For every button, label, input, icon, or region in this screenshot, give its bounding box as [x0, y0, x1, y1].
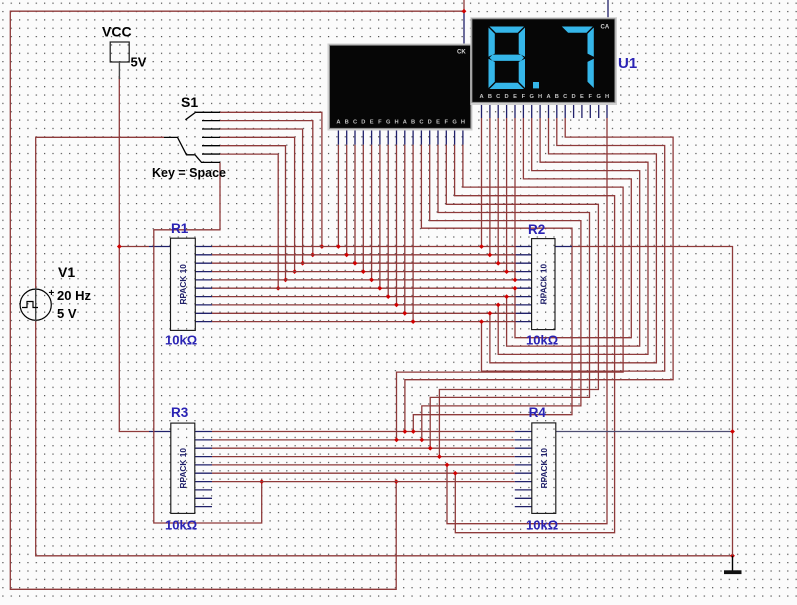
svg-text:B: B [411, 120, 415, 126]
wire R2 left pin stub 3 [515, 262, 532, 264]
svg-text:C: C [353, 120, 357, 126]
svg-text:E: E [370, 120, 374, 126]
wire R1 right pin stub 5 [195, 279, 212, 281]
svg-text:A: A [546, 94, 550, 100]
wire R4 left pin stub 2 [515, 439, 532, 441]
svg-text:D: D [361, 120, 365, 126]
label VCC value 5V [131, 55, 147, 70]
svg-text:H: H [538, 94, 542, 100]
svg-text:A: A [403, 120, 407, 126]
svg-text:G: G [386, 120, 391, 126]
wire R4 unconnected pin stub 10 [515, 506, 532, 508]
wire display1 pin 11 loop right-down-left to R3 row1 [413, 145, 572, 432]
svg-text:D: D [428, 120, 432, 126]
wire bus row 10 R1 pin10 to R2 pin10 [212, 321, 515, 323]
wire R4 unconnected pin stub 8 [515, 489, 532, 491]
wire U2 display1 pin 6 stub [379, 128, 381, 145]
wire R2 common pin stub [555, 246, 572, 248]
label R1 value 10k [165, 333, 197, 348]
wire R2 left pin stub 2 [515, 254, 532, 256]
wire S1 throw 6 to R1 pin 6 [220, 154, 278, 288]
svg-text:RPACK 10: RPACK 10 [178, 448, 188, 489]
junction display2 pin9 loop on R2 row9 [487, 311, 492, 316]
wire bus row 6 R3 pin6 to R4 pin6 [212, 472, 515, 474]
svg-text:VCC: VCC [102, 24, 132, 40]
svg-text:D: D [572, 94, 576, 100]
switch S1 contact 3 [202, 128, 220, 130]
wire U1 display2 pin 6 stub [522, 102, 524, 118]
label V1 [58, 264, 75, 280]
wire U1 display2 pin 1 stub [481, 102, 483, 118]
svg-text:D: D [505, 94, 509, 100]
svg-text:F: F [522, 94, 526, 100]
junction VCC rail / R1 pin1 [117, 244, 122, 249]
wire R4 left pin stub 7 [515, 481, 532, 483]
wire R2 left pin stub 7 [515, 296, 532, 298]
junction display1 seg5 on R1 row 5 [369, 277, 374, 282]
svg-text:5V: 5V [131, 55, 147, 70]
wire display1 segment 1 down to R1 row 1 [337, 145, 339, 247]
wire U2 display1 pin 3 stub [354, 128, 356, 145]
label R3 value 10k [165, 518, 197, 533]
wire R4 left pin stub 5 [515, 464, 532, 466]
wire R3 right pin stub 1 [195, 431, 212, 433]
wire display2 segment 3 down to R2 row 3 [497, 118, 499, 263]
svg-text:E: E [580, 94, 584, 100]
wire U1 display2 pin 4 stub [506, 102, 508, 118]
junction S1 wire on R1 row 3 [300, 261, 305, 266]
wire U2 display1 pin 14 stub [445, 128, 447, 145]
wire R3 unconnected pin stub 9 [195, 497, 212, 499]
wire display2 CA pin from top edge [607, 0, 609, 19]
svg-text:R3: R3 [171, 405, 189, 420]
svg-text:CA: CA [601, 25, 610, 31]
svg-text:G: G [596, 94, 601, 100]
svg-text:H: H [461, 120, 465, 126]
label S1 [181, 94, 198, 110]
svg-text:10kΩ: 10kΩ [526, 333, 558, 348]
wire display1 segment 5 down to R1 row 5 [371, 145, 373, 280]
wire R1 right pin stub 4 [195, 271, 212, 273]
junction display2 pin11 loop on R3 row1 [402, 429, 407, 434]
svg-text:+: + [49, 288, 55, 299]
wire U1 display2 pin 10 stub [556, 102, 558, 118]
wire R1 right pin stub 6 [195, 287, 212, 289]
svg-text:CK: CK [457, 50, 466, 56]
wire R2 left pin stub 6 [515, 287, 532, 289]
wire display2 segment 2 down to R2 row 2 [489, 118, 491, 255]
wire bus row 5 R3 pin5 to R4 pin5 [212, 464, 515, 466]
label R4 [529, 405, 547, 420]
wire U2 display1 pin 15 stub [454, 128, 456, 145]
wire U1 display2 pin 11 stub [564, 102, 566, 118]
svg-text:C: C [419, 120, 423, 126]
wire display1 segment 2 down to R1 row 2 [346, 145, 348, 255]
wire U2 display1 pin 2 stub [346, 128, 348, 145]
wire display1 segment 9 down to R1 row 9 [404, 145, 406, 313]
label R2 [528, 222, 545, 237]
wire net0 outer border (ground-side loop) left/top/bottom [10, 11, 464, 589]
wire U2 display1 pin 16 stub [462, 128, 464, 145]
junction display2 seg3 on R2 row 3 [496, 261, 501, 266]
wire R1 right pin stub 1 [195, 246, 212, 248]
display U1 seven-seg display2 outer frame [470, 17, 617, 105]
svg-text:F: F [589, 94, 593, 100]
wire R1 right pin stub 8 [195, 304, 212, 306]
wire U1 display2 pin 15 stub [598, 102, 600, 118]
display U2 pin letters A-H A-H [336, 120, 465, 126]
wire R4 left pin stub 6 [515, 472, 532, 474]
wire R2 left pin stub 10 [515, 321, 532, 323]
switch S1 contact 1 [195, 111, 220, 113]
wire bus row 2 R1 pin2 to R2 pin2 [212, 254, 515, 256]
wire bus row 5 R1 pin5 to R2 pin5 [212, 279, 515, 281]
junction display1 seg1 on R1 row 1 [336, 244, 341, 249]
junction S1 wire on R1 row 5 [283, 277, 288, 282]
svg-text:5 V: 5 V [57, 306, 77, 321]
junction display1 pin15 loop on R3 row6 [453, 471, 458, 476]
junction display1 pin16 loop on R3 row2 [394, 437, 399, 442]
svg-text:B: B [555, 94, 559, 100]
svg-text:B: B [488, 94, 492, 100]
junction display2 pin16 path on R3 row5 [445, 462, 450, 467]
svg-text:A: A [336, 120, 340, 126]
resistor pack R2 body [532, 239, 555, 330]
junction display2 seg5 on R2 row 5 [513, 277, 518, 282]
wire U1 display2 pin 8 stub [539, 102, 541, 118]
display U1 decimal point [533, 82, 539, 88]
svg-text:Key = Space: Key = Space [152, 166, 226, 180]
switch S1 contact 4 [202, 136, 220, 138]
wire U2 display1 pin 13 stub [437, 128, 439, 145]
wire U2 display1 pin 5 stub [371, 128, 373, 145]
wire R3 right pin stub 6 [195, 472, 212, 474]
junction S1 wire on R1 row 4 [292, 269, 297, 274]
wire U1 display2 pin 5 stub [514, 102, 516, 118]
switch S1 contact 2 [202, 120, 220, 122]
display U2 seven-seg display1 outer frame [328, 44, 473, 131]
wire VCC rail from VCC symbol down to R3 pin1 [119, 76, 149, 432]
wire U1 display2 pin 13 stub [581, 102, 583, 118]
wire display1 pin 14 loop right-down-left to R3 row4 [439, 145, 598, 457]
wire net0 stub to top edge at x=464 [463, 0, 465, 11]
resistor pack R3 body [171, 423, 195, 513]
svg-text:10kΩ: 10kΩ [165, 518, 197, 533]
wire R2 left pin stub 4 [515, 271, 532, 273]
junction S1 pole on R3 row7 [259, 479, 264, 484]
wire R4 left pin stub 4 [515, 456, 532, 458]
resistor pack R1 body [171, 238, 196, 330]
power VCC symbol [110, 42, 129, 79]
label R4 value 10k [526, 518, 558, 533]
junction display1 seg9 on R1 row 9 [402, 311, 407, 316]
wire R3 unconnected pin stub 8 [195, 489, 212, 491]
label R2 value 10k [526, 333, 558, 348]
wire R3 right pin stub 3 [195, 447, 212, 449]
label V1 frequency 20 Hz [57, 288, 91, 303]
wire bus row 7 R3 pin7 to R4 pin7 [212, 481, 515, 483]
label VCC [102, 24, 132, 40]
svg-text:RPACK 10: RPACK 10 [178, 264, 188, 305]
junction display2 pin10 loop on R2 row10 [479, 319, 484, 324]
display U1 digit 8 segments [489, 27, 526, 90]
svg-text:G: G [452, 120, 457, 126]
wire R1 right pin stub 10 [195, 321, 212, 323]
junction display1 pin14 loop on R3 row4 [437, 454, 442, 459]
switch S1 pole lead [164, 137, 220, 162]
wire display1 segment 6 down to R1 row 6 [379, 145, 381, 288]
wire U2 display1 pin 8 stub [396, 128, 398, 145]
wire display2 pin 7 elbow loop to R2 row7 [507, 118, 640, 346]
svg-text:20 Hz: 20 Hz [57, 288, 91, 303]
display U1 pin letters A-H A-H [479, 94, 609, 100]
svg-text:RPACK 10: RPACK 10 [538, 264, 548, 305]
wire bus row 7 R1 pin7 to R2 pin7 [212, 296, 515, 298]
wire U1 display2 pin 12 stub [573, 102, 575, 118]
wire bus row 1 R3 pin1 to R4 pin1 [212, 431, 515, 433]
wire S1 pole down-left-down to R3 row7 [154, 162, 262, 523]
ground symbol bar [724, 570, 742, 574]
junction display1 seg2 on R1 row 2 [344, 252, 349, 257]
svg-text:G: G [529, 94, 534, 100]
wire R4 left pin stub 3 [515, 447, 532, 449]
wire R3 right pin stub 2 [195, 439, 212, 441]
wire display1 segment 10 down to R1 row 10 [412, 145, 414, 322]
wire display2 segment 1 down to R2 row 1 [481, 118, 483, 247]
wire display2 pin 6 elbow loop to R2 row6 [515, 118, 631, 338]
switch S1 actuator arm [185, 112, 195, 119]
wire R3 right pin stub 5 [195, 464, 212, 466]
junction display2 seg4 on R2 row 4 [504, 269, 509, 274]
svg-text:E: E [513, 94, 517, 100]
junction border riser on R3 row7 [394, 479, 399, 484]
wire R2 left pin stub 9 [515, 312, 532, 314]
junction display1 seg8 on R1 row 8 [394, 302, 399, 307]
junction display1 seg7 on R1 row 7 [386, 294, 391, 299]
ground symbol stub [732, 556, 734, 571]
svg-text:H: H [605, 94, 609, 100]
wire bus row 9 R1 pin9 to R2 pin9 [212, 312, 515, 314]
wire S1 throw 5 to R1 pin 5 [220, 146, 286, 280]
svg-text:B: B [345, 120, 349, 126]
wire display2 pin 10 elbow loop to R2 row10 [482, 118, 665, 371]
svg-text:A: A [479, 94, 483, 100]
wire R2 common to right rail down to ground node [572, 247, 733, 556]
wire display1 pin 12 loop right-down-left to R3 row2 [422, 145, 581, 440]
wire V1 minus terminal to ground rail [36, 320, 733, 555]
wire display1 CK pin stub [463, 11, 465, 45]
svg-text:F: F [445, 120, 449, 126]
wire U1 display2 pin 9 stub [548, 102, 550, 118]
display U2 seven-seg display1 body [330, 45, 471, 128]
junction S1 wire on R1 row 6 [276, 286, 281, 291]
display U1 seven-seg display2 body [472, 19, 615, 103]
svg-text:V1: V1 [58, 264, 75, 280]
wire U1 display2 pin 2 stub [489, 102, 491, 118]
junction S1 wire on R1 row 2 [310, 252, 315, 257]
wire display1 segment 7 down to R1 row 7 [387, 145, 389, 297]
label V1 amplitude 5 V [57, 306, 77, 321]
wire display2 pin 16 long drop under R4 up to R3 row5 [447, 118, 607, 524]
wire display2 segment 5 down to R2 row 5 [514, 118, 516, 280]
wire display2 pin 9 elbow loop to R2 row9 [490, 118, 657, 363]
svg-text:C: C [563, 94, 567, 100]
svg-text:C: C [496, 94, 500, 100]
wire S1 throw 2 to R1 pin 2 [220, 121, 313, 255]
svg-text:R4: R4 [529, 405, 547, 420]
wire bus row 1 R1 pin1 to R2 pin1 [212, 246, 515, 248]
wire R4 common pin to right rail [556, 431, 733, 433]
junction display1 pin12 loop on R3 row2 [419, 437, 424, 442]
svg-text:R2: R2 [528, 222, 545, 237]
wire R2 left pin stub 8 [515, 304, 532, 306]
wire S1 throw 4 to R1 pin 4 [220, 137, 295, 271]
wire display2 segment 4 down to R2 row 4 [506, 118, 508, 272]
display U1 digit 7 segments [562, 27, 594, 89]
junction display2 pin8 loop on R2 row8 [496, 302, 501, 307]
junction border/CK at (464,11) [462, 9, 467, 14]
wire R4 left pin stub 1 [515, 431, 532, 433]
wire R1 right pin stub 7 [195, 296, 212, 298]
wire R3 right pin stub 4 [195, 456, 212, 458]
wire display1 segment 3 down to R1 row 3 [354, 145, 356, 263]
switch S1 contact 5 [202, 145, 220, 147]
wire display1 segment 4 down to R1 row 4 [362, 145, 364, 272]
wire R3 right pin stub 7 [195, 481, 212, 483]
wire U2 display1 pin 4 stub [362, 128, 364, 145]
wire S1 throw 3 to R1 pin 3 [220, 129, 303, 263]
source V1 square-wave glyph [22, 302, 38, 308]
wire R1 right pin stub 3 [195, 262, 212, 264]
junction display2 pin6 loop on R2 row6 [513, 286, 518, 291]
wire U2 display1 pin 7 stub [387, 128, 389, 145]
label U1 [618, 55, 637, 72]
junction ground node [730, 553, 735, 558]
wire R3 left pin stub (pin1) [149, 431, 171, 433]
junction display2 seg2 on R2 row 2 [487, 252, 492, 257]
wire R2 left pin stub 5 [515, 279, 532, 281]
junction display1 seg4 on R1 row 4 [361, 269, 366, 274]
wire R3 unconnected pin stub 10 [195, 506, 212, 508]
wire U2 display1 pin 9 stub [404, 128, 406, 145]
label R1 [171, 221, 189, 236]
svg-text:RPACK 10: RPACK 10 [539, 448, 549, 489]
junction display1 pin13 loop on R3 row3 [428, 446, 433, 451]
junction display2 seg1 on R2 row 1 [479, 244, 484, 249]
label R3 [171, 405, 189, 420]
wire display1 segment 8 down to R1 row 8 [396, 145, 398, 305]
wire U2 display1 pin 1 stub [337, 128, 339, 145]
wire U1 display2 pin 16 stub [606, 102, 608, 118]
wire U2 display1 pin 11 stub [420, 128, 422, 145]
label S1 key [152, 166, 226, 180]
resistor pack R4 body [532, 423, 556, 514]
wire U2 display1 pin 12 stub [429, 128, 431, 145]
wire display2 pin 11 elbow loop to R3 row1 [405, 118, 673, 432]
junction display2 pin7 loop on R2 row7 [504, 294, 509, 299]
wire R1 left pin stub (pin1) [149, 246, 171, 248]
wire bus row 2 R3 pin2 to R4 pin2 [212, 439, 515, 441]
wire bus row 8 R1 pin8 to R2 pin8 [212, 304, 515, 306]
junction display1 seg10 on R1 row 10 [411, 319, 416, 324]
wire S1 throw 1 to R1 pin 1 [220, 112, 322, 246]
wire bus row 4 R1 pin4 to R2 pin4 [212, 271, 515, 273]
wire U1 display2 pin 14 stub [589, 102, 591, 118]
wire U2 display1 pin 10 stub [412, 128, 414, 145]
junction display1 seg6 on R1 row 6 [377, 286, 382, 291]
svg-text:S1: S1 [181, 94, 198, 110]
wire R1 right pin stub 9 [195, 312, 212, 314]
wire bus row 6 R1 pin6 to R2 pin6 [212, 287, 515, 289]
svg-text:10kΩ: 10kΩ [526, 518, 558, 533]
svg-text:10kΩ: 10kΩ [165, 333, 197, 348]
svg-text:E: E [436, 120, 440, 126]
source V1 circle [20, 289, 51, 320]
wire U1 display2 pin 3 stub [497, 102, 499, 118]
wire bus row 3 R1 pin3 to R2 pin3 [212, 262, 515, 264]
junction S1 wire on R1 row 1 [319, 244, 324, 249]
wire VCC branch to R1 left pin [119, 246, 149, 248]
wire display1 pin 16 loop right-down-left to R3 row2 [397, 145, 624, 440]
wire display2 pin 8 elbow loop to R2 row8 [498, 118, 648, 354]
wire V1 plus terminal up to switch pole [36, 137, 164, 289]
junction R4 common on right rail [730, 429, 735, 434]
junction display1 pin11 loop on R3 row1 [411, 429, 416, 434]
svg-text:F: F [378, 120, 382, 126]
wire display1 pin 15 loop right-down-left to R3 row6 [455, 145, 615, 533]
wire bus row 3 R3 pin3 to R4 pin3 [212, 447, 515, 449]
source V1 pin line through body [35, 288, 37, 322]
svg-text:H: H [394, 120, 398, 126]
wire bus row 4 R3 pin4 to R4 pin4 [212, 456, 515, 458]
svg-text:U1: U1 [618, 55, 637, 72]
wire display1 pin 13 loop right-down-left to R3 row3 [430, 145, 589, 448]
wire R1 right pin stub 2 [195, 254, 212, 256]
svg-text:R1: R1 [171, 221, 189, 236]
wire R2 left pin stub 1 [515, 246, 532, 248]
junction display1 seg3 on R1 row 3 [353, 261, 358, 266]
wire R4 unconnected pin stub 9 [515, 497, 532, 499]
wire U1 display2 pin 7 stub [531, 102, 533, 118]
switch S1 contact 6 [202, 153, 220, 155]
